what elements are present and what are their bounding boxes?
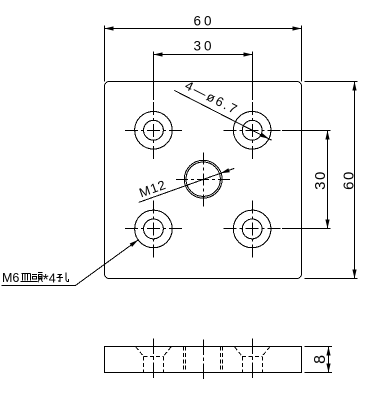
dimension 8: bottom arrowhead — [326, 364, 330, 373]
dimension 30 right: dimension line — [327, 131, 329, 229]
dimension 8: top arrowhead — [326, 347, 330, 356]
svg-text:60: 60 — [340, 170, 357, 190]
side view hole H4 centerline — [252, 339, 254, 381]
hole H1 top-left inner circle — [144, 120, 164, 140]
hole H3 horizontal centerline — [124, 228, 182, 230]
side view M12 centerline — [203, 340, 205, 380]
hole H1 vertical centerline — [153, 101, 155, 159]
dimension 60 top: extension line left — [104, 26, 106, 82]
side view M12 thread right outer (hidden) — [222, 347, 224, 373]
svg-text:30: 30 — [193, 38, 214, 53]
leader M6 countersunk: leader line — [75, 240, 138, 286]
leader 4-Ø6.7: leader line through hole H2 — [174, 90, 271, 140]
center hole M12 major circle — [184, 160, 222, 198]
leader M6 countersunk: glyph KONG (hole) — [57, 273, 69, 282]
hole H2 top-right inner circle — [242, 120, 262, 140]
dimension 30 top: extension line right (to hole H2) — [252, 52, 254, 101]
svg-text:*: * — [43, 272, 49, 289]
dimension 60 right: dimension line — [354, 82, 356, 279]
dimension 30 top: extension line left (to hole H1) — [153, 52, 155, 101]
side view hole H3 left wall (hidden) — [143, 357, 145, 373]
leader M6 countersunk: underline — [1, 285, 75, 287]
hole H4 bottom-right inner circle — [242, 219, 262, 239]
dimension 8: extension line top — [305, 346, 333, 348]
side view hole H4 cone bottom (hidden) — [242, 356, 262, 358]
leader M6 countersunk: glyph TOU (head) — [32, 273, 43, 283]
side view hole H3 countersink cone right (hidden) — [164, 347, 172, 356]
leader M6 countersunk: glyph MIN (dish) — [20, 274, 31, 282]
side view hole H3 cone bottom (hidden) — [143, 356, 163, 358]
hole H2 horizontal centerline — [223, 130, 282, 132]
leader M6 countersunk: arrowhead — [130, 240, 139, 247]
hole H3 bottom-left outer circle — [135, 210, 173, 248]
side view M12 hole right wall (hidden) — [220, 347, 222, 373]
side view M12 hole left wall (hidden) — [185, 347, 187, 373]
dimension 30 top: right arrowhead — [244, 52, 253, 56]
dimension 60 top: left arrowhead — [105, 26, 114, 30]
dimension 30 top: left arrowhead — [154, 52, 163, 56]
dimension 60 right: top arrowhead — [352, 82, 356, 91]
dimension 30 top: dimension line — [154, 54, 253, 56]
leader 4-Ø6.7: arrowhead — [260, 133, 269, 139]
dimension 8: extension line bottom — [305, 372, 333, 374]
plate outline (front view, 60x60) — [105, 82, 302, 279]
dimension 30 right: extension line top (from hole H2) — [282, 130, 331, 132]
side view hole H3 countersink cone left (hidden) — [136, 347, 144, 356]
hole H3 bottom-left inner circle — [144, 219, 164, 239]
svg-text:M6: M6 — [2, 271, 19, 285]
svg-text:8: 8 — [312, 355, 329, 364]
svg-text:30: 30 — [312, 170, 329, 190]
leader M12: leader line through center hole — [139, 168, 235, 202]
side view M12 thread left outer (hidden) — [183, 347, 185, 373]
hole H2 top-right outer circle — [233, 111, 271, 149]
dimension 30 right: bottom arrowhead — [325, 220, 329, 229]
hole H4 bottom-right outer circle — [233, 210, 271, 248]
hole H3 vertical centerline — [153, 200, 155, 258]
dimension 8: dimension line — [328, 347, 330, 373]
svg-text:60: 60 — [193, 13, 214, 28]
dimension 60 top: dimension line — [105, 28, 302, 30]
leader M12: arrowhead — [221, 168, 230, 173]
center hole vertical centerline — [203, 152, 205, 207]
center hole horizontal centerline — [176, 179, 231, 181]
side view hole H4 left wall (hidden) — [242, 357, 244, 373]
side view hole H4 countersink cone left (hidden) — [235, 347, 243, 356]
dimension 60 right: extension line bottom — [305, 278, 358, 280]
center hole M12 minor circle — [186, 162, 220, 196]
side view plate body — [105, 347, 302, 373]
side view hole H3 centerline — [153, 339, 155, 381]
side view hole H4 countersink cone right (hidden) — [262, 347, 270, 356]
dimension 60 right: bottom arrowhead — [352, 270, 356, 279]
hole H4 horizontal centerline — [223, 228, 282, 230]
hole H1 top-left outer circle — [135, 111, 173, 149]
hole H4 vertical centerline — [252, 200, 254, 258]
hole H1 horizontal centerline — [124, 130, 182, 132]
dimension 60 top: right arrowhead — [293, 26, 302, 30]
dimension 30 right: extension line bottom (from hole H4) — [282, 228, 331, 230]
dimension 60 top: extension line right — [301, 26, 303, 82]
dimension 60 right: extension line top — [305, 81, 358, 83]
dimension 30 right: top arrowhead — [325, 131, 329, 140]
side view hole H3 right wall (hidden) — [163, 357, 165, 373]
svg-text:4: 4 — [49, 272, 56, 286]
side view hole H4 right wall (hidden) — [262, 357, 264, 373]
hole H2 vertical centerline — [252, 101, 254, 159]
